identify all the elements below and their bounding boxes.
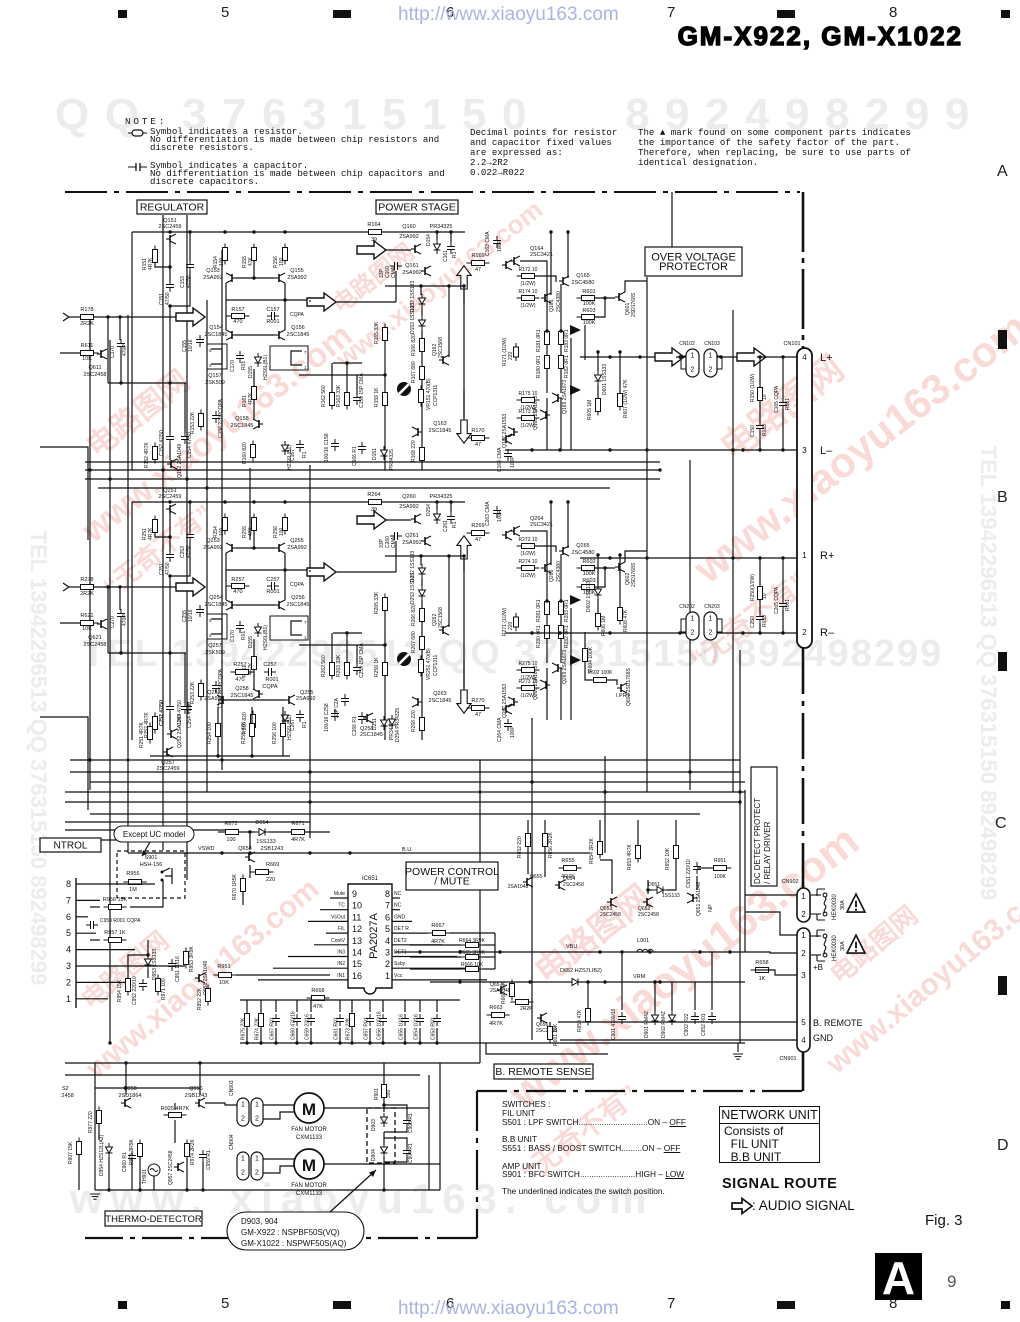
relay 1 xyxy=(811,889,827,920)
svg-text:Q167 2SA1553: Q167 2SA1553 xyxy=(502,414,508,448)
resistor R606 xyxy=(596,610,601,631)
capacitor C161 xyxy=(447,242,455,254)
svg-text:C902 R22: C902 R22 xyxy=(684,1013,690,1036)
capacitor C902 xyxy=(691,1012,699,1024)
resistor R170 xyxy=(467,436,490,441)
svg-text:4: 4 xyxy=(385,936,390,946)
capacitor C654 xyxy=(416,1014,424,1026)
resistor R169 xyxy=(467,261,490,266)
capacitor C267b xyxy=(296,710,304,722)
capacitor C152 xyxy=(166,432,174,444)
svg-text:7: 7 xyxy=(304,350,307,355)
capacitor C270f xyxy=(236,621,244,633)
svg-text:2SD1864: 2SD1864 xyxy=(119,1093,142,1099)
svg-text:2SC1845: 2SC1845 xyxy=(429,698,452,704)
transistor Q651 xyxy=(687,893,697,903)
margin letter B xyxy=(997,489,1008,507)
svg-text:R272 10: R272 10 xyxy=(519,537,538,543)
svg-text:1: 1 xyxy=(241,1102,245,1109)
svg-text:R661 10K: R661 10K xyxy=(553,1023,559,1046)
resistor R154 xyxy=(223,244,228,265)
svg-text:1: 1 xyxy=(691,616,695,623)
resistor R164 xyxy=(364,230,387,235)
svg-text:2SD1768S: 2SD1768S xyxy=(631,562,637,587)
connector CN203 xyxy=(704,612,717,640)
svg-text:2SC2458: 2SC2458 xyxy=(84,372,107,378)
svg-text:R1: R1 xyxy=(302,451,308,458)
svg-text:R+: R+ xyxy=(820,550,834,562)
capacitor C267b xyxy=(341,694,349,706)
connector CN101 xyxy=(797,348,812,648)
svg-text:2SA992: 2SA992 xyxy=(296,696,316,702)
wire fan section top rails xyxy=(65,1062,480,1064)
svg-text:2: 2 xyxy=(255,1116,259,1123)
svg-text:47: 47 xyxy=(475,267,481,273)
watermark gray bottom xyxy=(70,1175,655,1223)
label box THERMO-DETECTOR xyxy=(105,1211,202,1226)
svg-text:(1/2W): (1/2W) xyxy=(521,423,536,429)
svg-text:R608 47K: R608 47K xyxy=(623,609,629,632)
capacitor C257b xyxy=(264,668,276,676)
signal arrow up xyxy=(457,536,471,559)
svg-text:R654 2R2K: R654 2R2K xyxy=(589,837,595,864)
variable resistor VR151 xyxy=(397,382,411,396)
wire VSWD rail xyxy=(128,852,590,854)
svg-text:6: 6 xyxy=(66,912,71,922)
border right upper xyxy=(802,192,805,348)
resistor R156 xyxy=(283,244,288,265)
transistor Q158 xyxy=(253,419,263,429)
input chevron xyxy=(63,583,69,591)
svg-text:C261: C261 xyxy=(443,520,449,532)
svg-text:PR34325: PR34325 xyxy=(389,449,395,470)
border right lower xyxy=(802,1052,805,1091)
svg-text:Q261: Q261 xyxy=(405,533,418,539)
svg-text:R033: R033 xyxy=(762,424,768,436)
resistor R907 xyxy=(77,1138,82,1159)
resistor R264 xyxy=(364,500,387,505)
page number 9 xyxy=(947,1272,957,1292)
resistor R269 xyxy=(467,531,490,536)
resistor R266 xyxy=(420,605,425,626)
svg-text:IC651: IC651 xyxy=(362,876,379,882)
capacitor C150 xyxy=(759,401,761,422)
svg-text:2SC1568: 2SC1568 xyxy=(438,607,444,628)
svg-text:2R2K: 2R2K xyxy=(80,591,94,597)
safety triangle out2 xyxy=(570,385,581,395)
svg-text:47: 47 xyxy=(475,442,481,448)
svg-text:4R7K: 4R7K xyxy=(248,392,254,405)
svg-text:IN1: IN1 xyxy=(337,973,345,979)
label box DC DETECT PROTECTOR / RELAY DRIVER xyxy=(751,767,777,886)
cluster wires xyxy=(527,820,529,833)
resistor R162 xyxy=(330,389,335,410)
svg-text:D254 PR34325: D254 PR34325 xyxy=(395,708,401,742)
svg-text:Q166: Q166 xyxy=(549,300,555,312)
footer marks xyxy=(118,1301,127,1309)
transistor Q156 xyxy=(275,330,285,340)
svg-text:DC DETECT PROTECT: DC DETECT PROTECT xyxy=(753,798,762,884)
wire OVP verticals xyxy=(570,338,572,450)
resistor R263 xyxy=(345,659,350,680)
svg-text:CXM1133: CXM1133 xyxy=(296,1191,323,1197)
svg-text:2SC2459: 2SC2459 xyxy=(159,224,182,230)
svg-text:ContV: ContV xyxy=(331,938,346,944)
transistor Q251 xyxy=(166,504,176,514)
wire CN103 to CN101 xyxy=(757,356,797,358)
svg-text:C266 R1: C266 R1 xyxy=(352,716,358,736)
transistor Q957 xyxy=(174,1162,184,1172)
svg-text:6: 6 xyxy=(385,912,390,922)
resistor R155 xyxy=(252,244,257,265)
fan wires xyxy=(263,1104,294,1106)
capacitor C156 xyxy=(212,411,220,423)
transistor Q264 xyxy=(510,526,520,536)
connector CN904 xyxy=(237,1152,249,1180)
svg-text:(1/2W): (1/2W) xyxy=(521,551,536,557)
svg-text:D902 RM4Z: D902 RM4Z xyxy=(661,1011,667,1038)
header marks xyxy=(118,10,127,18)
emitter resistors 0R1 group xyxy=(545,598,550,619)
svg-text:R265 33K: R265 33K xyxy=(374,591,380,614)
svg-text:R183 0R1: R183 0R1 xyxy=(564,329,570,352)
svg-text:Q263: Q263 xyxy=(433,691,446,697)
svg-text:R275 10: R275 10 xyxy=(519,661,538,667)
signal arrow 1 xyxy=(176,578,205,596)
resistor R175 xyxy=(517,398,540,403)
capacitor C661 xyxy=(336,1014,344,1026)
fig 3 xyxy=(925,1212,963,1229)
svg-text:DET2: DET2 xyxy=(394,938,407,944)
svg-text:FAN MOTOR: FAN MOTOR xyxy=(291,1183,327,1189)
svg-text:C170: C170 xyxy=(110,346,116,358)
svg-text:CN202: CN202 xyxy=(679,604,695,610)
resistor R165 xyxy=(383,324,388,345)
capacitor C250 xyxy=(759,600,761,614)
svg-text:C270: C270 xyxy=(110,616,116,628)
transistor Q262 xyxy=(439,625,449,635)
svg-text:1: 1 xyxy=(66,994,71,1004)
svg-text:C163 CMA: C163 CMA xyxy=(485,231,491,256)
svg-text:C253 47/50: C253 47/50 xyxy=(177,700,183,726)
left cut connector box xyxy=(40,447,88,540)
svg-text:2SC3421: 2SC3421 xyxy=(530,522,553,528)
svg-text:7: 7 xyxy=(66,895,71,905)
fan motor 2 xyxy=(294,1149,324,1179)
resistor R257b xyxy=(231,670,254,675)
resistor R273 xyxy=(517,686,540,691)
svg-text:C656 100/16: C656 100/16 xyxy=(377,1011,383,1040)
resistor R667 xyxy=(428,931,451,936)
svg-text:POWER STAGE: POWER STAGE xyxy=(378,202,455,214)
capacitor C253 xyxy=(189,502,191,531)
border top dash-dot xyxy=(65,191,800,193)
svg-text:2SA992: 2SA992 xyxy=(287,275,307,281)
svg-text:C660 470/16: C660 470/16 xyxy=(291,1011,297,1040)
wire OVP box top vertical xyxy=(671,192,673,247)
svg-text:47/50: 47/50 xyxy=(186,275,192,288)
svg-text:1: 1 xyxy=(801,892,806,901)
svg-text:2SA1048: 2SA1048 xyxy=(508,884,529,890)
svg-text:16: 16 xyxy=(352,971,362,981)
svg-text:C164 CMA: C164 CMA xyxy=(497,447,503,472)
resistor R669 xyxy=(251,870,274,875)
svg-text:B. REMOTE SENSE: B. REMOTE SENSE xyxy=(495,1066,591,1078)
svg-text:CCP1311: CCP1311 xyxy=(433,654,439,676)
diode D252 xyxy=(419,564,426,578)
svg-text:2SC2458: 2SC2458 xyxy=(563,882,584,888)
svg-text:1M: 1M xyxy=(129,887,137,893)
capacitor C251 xyxy=(169,513,171,551)
capacitor C170 xyxy=(117,339,125,351)
transistor Q951 xyxy=(195,973,205,983)
svg-text:R672: R672 xyxy=(224,821,237,827)
svg-text:2SK509: 2SK509 xyxy=(205,650,225,656)
resistor R977 xyxy=(97,1107,102,1128)
svg-text:IN2: IN2 xyxy=(337,961,345,967)
svg-text:CN904: CN904 xyxy=(229,1134,235,1150)
svg-text:NP: NP xyxy=(708,904,714,912)
connector CN902 xyxy=(797,888,810,922)
resistor R602 b xyxy=(577,585,600,590)
svg-text:47/50: 47/50 xyxy=(165,292,171,305)
resistor R956 xyxy=(104,905,127,910)
svg-text:4: 4 xyxy=(66,945,71,955)
svg-text:R169: R169 xyxy=(471,253,484,259)
transistor Q956 xyxy=(195,1098,205,1108)
transistor Q160 xyxy=(411,244,421,254)
inductor L901 xyxy=(637,949,653,952)
resistor R672 xyxy=(221,830,244,835)
svg-text:100K: 100K xyxy=(583,301,596,307)
watermark pink group 4 xyxy=(79,1059,81,1061)
svg-text:R656 2R2K: R656 2R2K xyxy=(548,831,554,858)
resistor R259 xyxy=(383,659,388,680)
channel R amplifier block xyxy=(40,488,647,810)
resistor R674 xyxy=(259,1010,264,1031)
transistor Q263 xyxy=(412,697,422,707)
svg-text:(1/2W): (1/2W) xyxy=(521,281,536,287)
left cut connector box xyxy=(40,717,88,810)
svg-text:13: 13 xyxy=(352,936,362,946)
emitter resistors 0R1 group xyxy=(545,328,550,349)
svg-text:D155: D155 xyxy=(248,366,254,378)
svg-text:R653 4R7K: R653 4R7K xyxy=(627,843,633,870)
resistor R261 xyxy=(252,653,257,674)
OVP mirror wires xyxy=(597,555,599,585)
svg-text:D652 HZS7LIB2): D652 HZS7LIB2) xyxy=(560,968,602,974)
svg-text:1K: 1K xyxy=(759,976,766,982)
svg-text:10: 10 xyxy=(762,394,768,400)
svg-text:/ RELAY DRIVER: / RELAY DRIVER xyxy=(763,821,772,884)
svg-text:10K: 10K xyxy=(219,980,229,986)
svg-text:R670 1R5K: R670 1R5K xyxy=(232,873,238,900)
svg-text:NC: NC xyxy=(394,903,402,909)
svg-text:2: 2 xyxy=(255,1170,259,1177)
svg-text:R033: R033 xyxy=(762,615,768,627)
svg-text:470P: 470P xyxy=(122,344,128,356)
svg-text:R251 4R7K: R251 4R7K xyxy=(139,721,145,748)
transistor Q164 xyxy=(510,256,520,266)
svg-text:CN903: CN903 xyxy=(229,1080,235,1096)
resistor R161 xyxy=(252,383,257,404)
resistor R953 xyxy=(184,948,189,969)
svg-text:(1/2W): (1/2W) xyxy=(521,693,536,699)
output cluster wires xyxy=(520,261,547,331)
svg-text:D953 1SS133: D953 1SS133 xyxy=(152,949,158,980)
svg-text:D602 1SS133: D602 1SS133 xyxy=(586,581,592,612)
svg-text:GND: GND xyxy=(813,1033,834,1043)
svg-text:4R7K: 4R7K xyxy=(148,257,154,270)
svg-text:CN203: CN203 xyxy=(704,604,720,610)
svg-text:L+: L+ xyxy=(820,352,833,364)
capacitor C659 xyxy=(307,1014,315,1026)
transistor Q258b xyxy=(363,713,373,723)
svg-text:C257: C257 xyxy=(266,577,279,583)
svg-text:R660 10K: R660 10K xyxy=(501,981,507,1004)
svg-text:10K: 10K xyxy=(82,356,92,362)
svg-text:2: 2 xyxy=(691,367,695,374)
capacitor C253 xyxy=(184,702,192,714)
svg-text:C263 CMA: C263 CMA xyxy=(485,501,491,526)
svg-text:C166 R1: C166 R1 xyxy=(352,446,358,466)
svg-text:Q956: Q956 xyxy=(189,1086,202,1092)
svg-text:D903, 904: D903, 904 xyxy=(241,1217,278,1226)
ground 777 xyxy=(737,1043,739,1052)
svg-text:2SB1243: 2SB1243 xyxy=(261,846,284,852)
watermark gray right vertical xyxy=(975,273,1001,1073)
svg-text:C170: C170 xyxy=(230,630,236,642)
svg-text:2SC1845: 2SC1845 xyxy=(287,602,310,608)
resistor R621 xyxy=(76,621,99,626)
capacitor C255 xyxy=(196,605,204,617)
svg-text:M: M xyxy=(302,1156,316,1175)
diode D152 xyxy=(419,294,426,308)
resistor R256 xyxy=(283,514,288,535)
resistor R653 xyxy=(636,842,641,863)
svg-text:R178: R178 xyxy=(80,307,93,313)
svg-text:R602: R602 xyxy=(582,559,595,565)
svg-text:Q260: Q260 xyxy=(402,494,415,500)
svg-text:R666 10K: R666 10K xyxy=(461,962,484,968)
svg-text:2: 2 xyxy=(802,628,807,637)
svg-text:D903: D903 xyxy=(371,1119,377,1131)
svg-text:R255 47K: R255 47K xyxy=(241,721,247,744)
svg-text:C152 47/50: C152 47/50 xyxy=(159,430,165,456)
svg-text:R267 680: R267 680 xyxy=(411,631,417,653)
svg-text:HZS6L(B1): HZS6L(B1) xyxy=(263,625,269,650)
svg-text:2: 2 xyxy=(66,977,71,987)
svg-text:C161: C161 xyxy=(443,250,449,262)
resistor R252 xyxy=(153,713,158,734)
wire mid rail xyxy=(385,555,464,557)
svg-text:R264: R264 xyxy=(367,492,380,498)
svg-text:R602 100K: R602 100K xyxy=(587,670,613,676)
svg-text:R655: R655 xyxy=(561,858,574,864)
wire rail y462 xyxy=(85,461,660,463)
border right mid xyxy=(802,648,805,888)
svg-text:R673 22K: R673 22K xyxy=(346,1017,352,1040)
capacitor C258 xyxy=(331,709,339,721)
svg-text:2SC1845: 2SC1845 xyxy=(360,732,383,738)
fan motor 1 xyxy=(294,1093,324,1123)
svg-text:C655 10/16: C655 10/16 xyxy=(399,1014,405,1040)
transistor Q154 xyxy=(226,330,236,340)
transistor Q261 xyxy=(421,536,431,546)
transistor Q169 xyxy=(552,393,562,403)
note capacitor symbol xyxy=(128,162,148,172)
svg-text:470: 470 xyxy=(233,589,242,595)
svg-text:2SC1845: 2SC1845 xyxy=(205,332,228,338)
diode D154 xyxy=(434,240,441,254)
capacitor C266 xyxy=(358,712,366,724)
svg-text:R165 33K: R165 33K xyxy=(374,321,380,344)
resistor R254 xyxy=(223,514,228,535)
capacitor C257 xyxy=(267,582,279,590)
wire long horizontals backbone xyxy=(85,469,660,471)
svg-text:C170: C170 xyxy=(230,360,236,372)
svg-text:47: 47 xyxy=(475,712,481,718)
svg-text:R621: R621 xyxy=(80,613,93,619)
wire arrow2 to C160 xyxy=(336,571,396,573)
margin letter A xyxy=(997,163,1008,181)
svg-text:220: 220 xyxy=(266,877,275,883)
svg-text:220: 220 xyxy=(508,621,514,630)
svg-text:D154: D154 xyxy=(426,234,432,246)
svg-text:R181 0R1: R181 0R1 xyxy=(536,329,542,352)
resistor R957 xyxy=(104,938,127,943)
svg-text:100P: 100P xyxy=(497,510,503,522)
svg-text:100K: 100K xyxy=(583,571,596,577)
svg-text:R278: R278 xyxy=(80,577,93,583)
svg-text:D904: D904 xyxy=(371,1149,377,1161)
svg-text:R901: R901 xyxy=(374,1088,380,1100)
svg-text:R254 100: R254 100 xyxy=(207,722,213,744)
svg-text:C667 R01: C667 R01 xyxy=(270,1017,276,1040)
svg-text:1: 1 xyxy=(255,1156,259,1163)
svg-text:R167 680: R167 680 xyxy=(411,361,417,383)
capacitor C904 xyxy=(403,1146,411,1158)
capacitor C903 xyxy=(403,1116,411,1128)
capacitor C952 xyxy=(139,979,147,991)
wire junction dots backbone xyxy=(88,468,91,471)
svg-text:R270: R270 xyxy=(471,698,484,704)
capacitor C164 xyxy=(504,449,512,461)
capacitor C657 xyxy=(366,1014,374,1026)
svg-text:R907 15K: R907 15K xyxy=(68,1141,74,1164)
svg-text:D254: D254 xyxy=(426,504,432,516)
svg-text:47K: 47K xyxy=(313,1004,323,1010)
node L- rail xyxy=(505,449,797,451)
svg-text:CN103: CN103 xyxy=(704,341,720,347)
svg-text:I.PRT: I.PRT xyxy=(616,693,631,699)
svg-text:C251 47/50: C251 47/50 xyxy=(159,700,165,726)
output cluster wires xyxy=(520,531,547,601)
capacitor C159 xyxy=(353,393,361,405)
svg-text:D601 1SS133: D601 1SS133 xyxy=(602,364,608,395)
capacitor C165 xyxy=(782,357,784,399)
svg-text:R652 10K: R652 10K xyxy=(665,847,671,870)
svg-text:4: 4 xyxy=(801,1036,806,1045)
resistor R157 xyxy=(227,314,250,319)
capacitor C655 xyxy=(401,1014,409,1026)
diode D256 xyxy=(282,711,289,725)
dashed box D903 D904 xyxy=(367,1108,395,1163)
svg-text:R282 0R1: R282 0R1 xyxy=(564,625,570,648)
svg-text:2SC2459: 2SC2459 xyxy=(157,766,180,772)
svg-text:Vcc: Vcc xyxy=(394,973,403,979)
svg-text:VR251 470(B): VR251 470(B) xyxy=(426,648,432,680)
